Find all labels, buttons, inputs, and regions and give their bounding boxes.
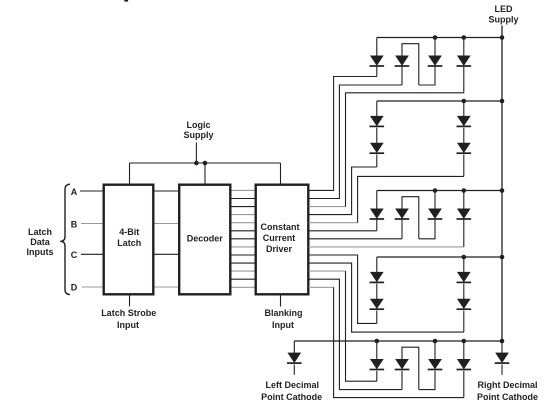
node group 5 D1 anode xyxy=(375,339,380,344)
wire supply drop to latch xyxy=(129,163,131,184)
LED group 3 diode D2 xyxy=(396,209,409,219)
svg-text:Decoder: Decoder xyxy=(187,233,224,243)
LED group 3 diode D3 xyxy=(434,191,436,209)
wire driver output 4 xyxy=(309,167,377,215)
LED group 4 right column series diodes xyxy=(463,257,465,272)
wire driver output 6 xyxy=(309,230,377,232)
wire latch to decoder bit D xyxy=(155,286,179,288)
svg-text:Input: Input xyxy=(117,320,139,330)
wire LED supply vertical rail xyxy=(501,26,503,342)
wire decoder to driver line 6 xyxy=(232,230,255,232)
wire input C to latch xyxy=(81,253,103,255)
LED group 5 diode D4 xyxy=(463,341,465,359)
wire logic supply rail xyxy=(130,162,281,164)
svg-text:Constant: Constant xyxy=(261,222,300,232)
wire decoder to driver line 9 xyxy=(232,254,255,256)
block U2 Decoder xyxy=(179,185,230,295)
node group 2 supply junction xyxy=(500,99,505,104)
svg-text:Latch Strobe: Latch Strobe xyxy=(101,308,156,318)
wire decoder to driver line 5 xyxy=(232,222,255,224)
node group 1 D3 anode xyxy=(433,35,438,40)
node group 3 D4 anode xyxy=(462,188,467,193)
wire decoder to driver line 12 xyxy=(232,278,255,280)
wire input A to latch xyxy=(80,190,103,192)
LED group 1 diode D1 xyxy=(376,38,378,56)
wire anode rail group 2 xyxy=(377,100,502,102)
wire latch to decoder bit C xyxy=(155,253,179,255)
cut-off caption fragment at top edge xyxy=(124,0,128,2)
wire logic supply stub xyxy=(195,143,197,164)
wire anode rail group 1 xyxy=(377,37,502,39)
wire anode rail group 3 xyxy=(377,190,502,192)
node group 5 supply junction xyxy=(500,339,505,344)
wire driver output 7 xyxy=(309,238,402,240)
node group 1 supply junction xyxy=(500,35,505,40)
svg-text:Inputs: Inputs xyxy=(27,247,54,257)
svg-text:4-Bit: 4-Bit xyxy=(119,227,139,237)
node group 3 D3 anode xyxy=(433,188,438,193)
wire decoder to driver line 7 xyxy=(232,238,255,240)
svg-text:Latch: Latch xyxy=(117,238,141,248)
wire driver output 13 xyxy=(309,286,334,288)
wire decoder to driver line 2 xyxy=(232,198,255,200)
svg-text:Input: Input xyxy=(272,320,294,330)
block U1 4-Bit Latch xyxy=(104,185,154,295)
svg-text:Point Cathode: Point Cathode xyxy=(477,392,538,402)
svg-text:Right Decimal: Right Decimal xyxy=(477,380,537,390)
wire group 5 series bump D2 anode to D3 cathode xyxy=(402,347,419,389)
svg-text:Driver: Driver xyxy=(266,244,293,254)
block U3 Constant Current Driver xyxy=(256,185,309,295)
node group 4 supply junction xyxy=(500,255,505,260)
wire latch strobe stub xyxy=(129,295,131,307)
svg-text:Supply: Supply xyxy=(183,130,213,140)
wire driver output 1 xyxy=(309,77,377,191)
wire anode rail group 4 xyxy=(377,256,502,258)
wire driver output 11 xyxy=(309,270,346,272)
node group 2 right column anode xyxy=(462,99,467,104)
LED group 2 right column series diodes xyxy=(463,101,465,116)
LED group 5 diode D2 xyxy=(396,359,409,369)
wire group 1 series bump D2 anode to D3 cathode xyxy=(402,44,419,85)
svg-text:LED: LED xyxy=(495,4,514,14)
node group 1 D4 anode xyxy=(462,35,467,40)
curly brace for latch data inputs xyxy=(60,184,70,294)
svg-text:Point Cathode: Point Cathode xyxy=(261,392,322,402)
wire group 3 series bump D2 anode to D3 cathode xyxy=(402,197,419,239)
wire decoder to driver line 3 xyxy=(232,206,255,208)
svg-text:Supply: Supply xyxy=(488,15,518,25)
wire decoder to driver line 1 xyxy=(232,189,255,191)
wire input B to latch xyxy=(81,223,103,225)
wire decoder to driver line 8 xyxy=(232,246,255,248)
LED group 5 diode D1 xyxy=(376,341,378,359)
wire blanking stub xyxy=(280,295,282,307)
wire input D to latch xyxy=(82,286,103,288)
LED group 1 diode D2 xyxy=(396,56,409,66)
node group 4 right column anode xyxy=(462,255,467,260)
node group 5 D3 anode xyxy=(433,339,438,344)
wire supply drop to driver xyxy=(280,163,282,184)
wire driver output 10 xyxy=(309,263,464,332)
wire latch to decoder bit B xyxy=(155,223,179,225)
wire decoder to driver line 10 xyxy=(232,262,255,264)
svg-text:A: A xyxy=(71,187,78,197)
node supply junction xyxy=(194,161,199,166)
LED group 1 diode D3 xyxy=(434,38,436,56)
svg-text:Current: Current xyxy=(263,233,296,243)
LED group 2 left column series diodes xyxy=(376,101,378,116)
svg-text:Left Decimal: Left Decimal xyxy=(266,380,320,390)
wire driver output 12 xyxy=(309,279,402,389)
wire latch to decoder bit A xyxy=(155,190,179,192)
svg-text:Logic: Logic xyxy=(187,120,211,130)
LED right decimal point diode xyxy=(501,341,503,353)
wire driver output 9 xyxy=(309,255,377,323)
LED group 3 diode D4 xyxy=(463,191,465,209)
wire decoder to driver line 4 xyxy=(232,214,255,216)
wire anode rail group 5 xyxy=(294,340,502,342)
LED group 5 diode D3 xyxy=(434,341,436,359)
LED group 3 diode D1 xyxy=(376,191,378,209)
svg-text:Latch: Latch xyxy=(28,227,52,237)
wire supply drop to decoder xyxy=(204,163,206,184)
node decoder supply junction xyxy=(203,161,208,166)
wire driver output 3 xyxy=(309,206,346,208)
wire decoder to driver line 13 xyxy=(232,286,255,288)
wire decoder to driver line 11 xyxy=(232,270,255,272)
svg-text:Data: Data xyxy=(30,237,51,247)
node group 3 supply junction xyxy=(500,188,505,193)
svg-text:B: B xyxy=(71,219,78,229)
svg-text:Blanking: Blanking xyxy=(264,308,302,318)
svg-text:C: C xyxy=(71,250,78,260)
LED left decimal point diode xyxy=(293,341,295,353)
wire driver output 8 xyxy=(309,246,464,248)
wire driver output 2 xyxy=(309,85,402,199)
svg-text:D: D xyxy=(71,283,78,293)
wire driver output 5 xyxy=(309,222,358,224)
LED group 1 diode D4 xyxy=(463,38,465,56)
node group 5 D4 anode xyxy=(462,339,467,344)
LED group 4 left column series diodes xyxy=(376,257,378,272)
